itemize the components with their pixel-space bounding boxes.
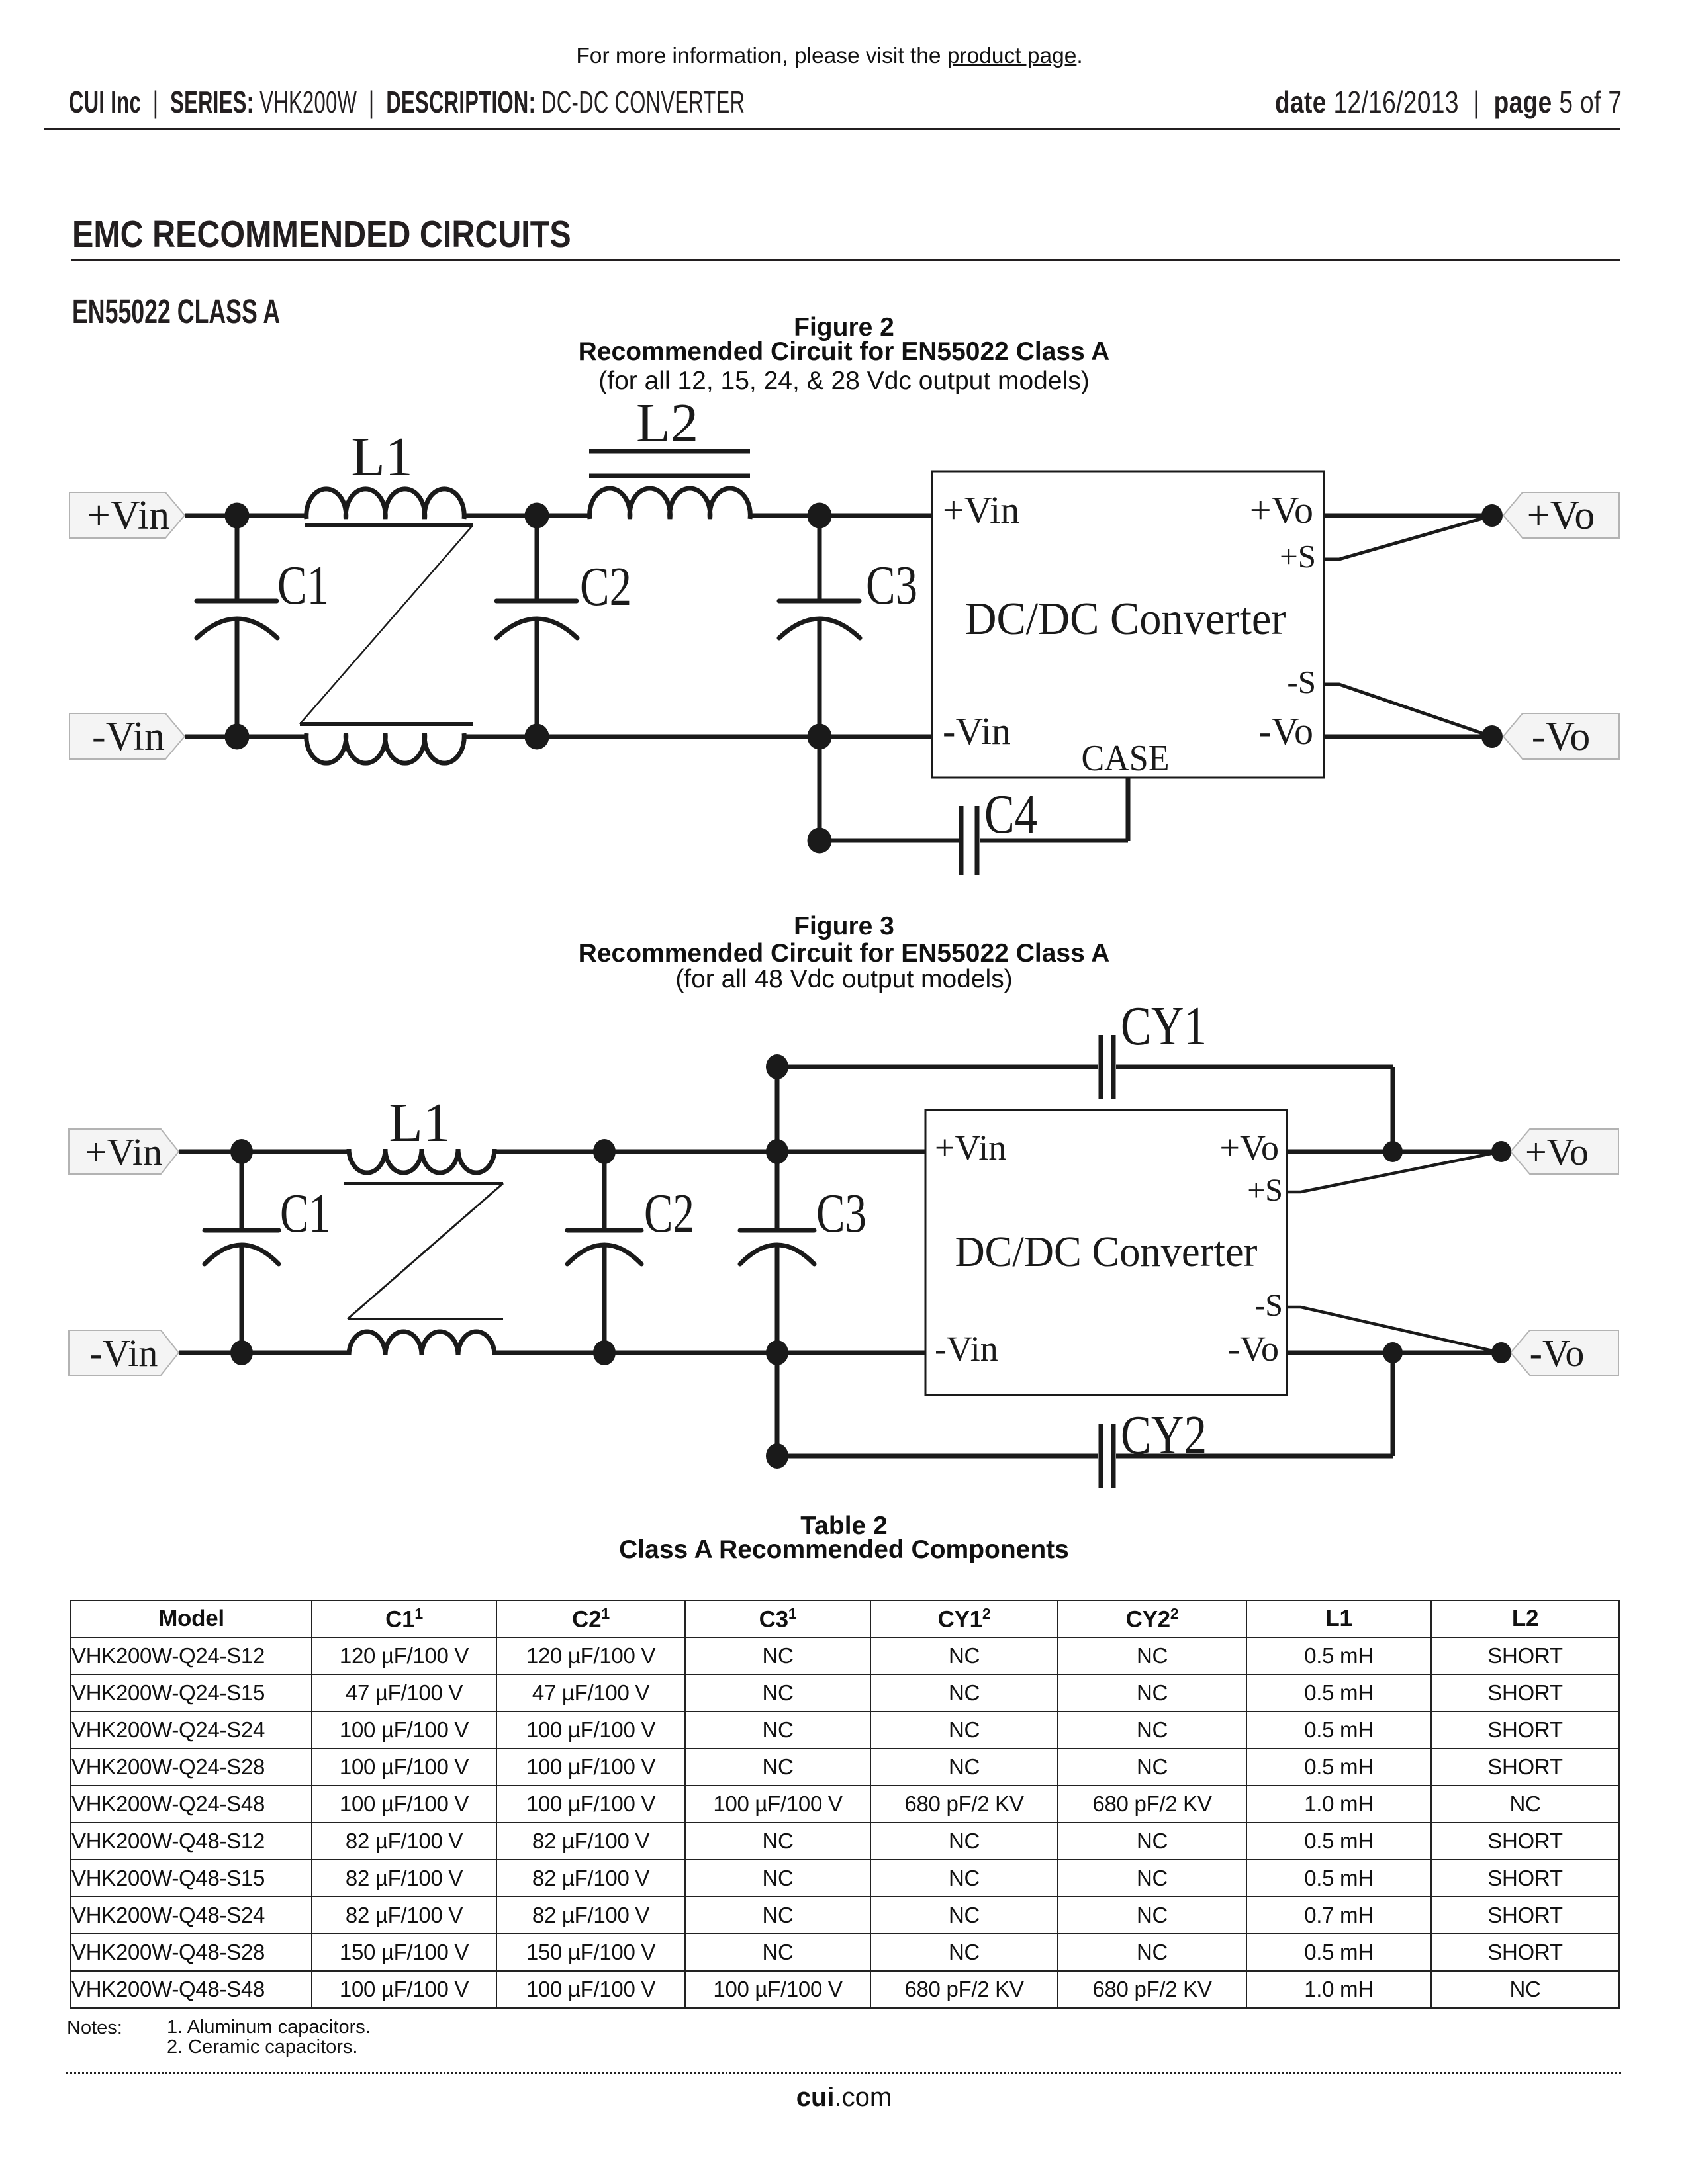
junction C3 bottom — [808, 724, 832, 750]
junction C1 top — [230, 1139, 253, 1164]
junction -Vo node — [1481, 725, 1503, 748]
wire +S sense — [1287, 1152, 1501, 1192]
subsection — [72, 292, 369, 331]
wire +Vin tag to L1 — [185, 514, 308, 518]
junction C3 top — [766, 1139, 788, 1164]
junction C1 bottom — [225, 724, 250, 750]
wire L2 to box +Vin — [748, 514, 932, 518]
svg-text:+Vin: +Vin — [943, 488, 1019, 531]
top info line — [0, 44, 1673, 69]
header rule — [44, 128, 1620, 130]
svg-text:C1: C1 — [280, 1183, 330, 1244]
junction CY2 branch — [766, 1443, 788, 1469]
notes — [67, 2017, 122, 2039]
svg-text:+S: +S — [1280, 538, 1316, 574]
wire L1 to box +Vin — [492, 1150, 925, 1154]
junction CY1 branch — [766, 1054, 788, 1079]
svg-text:C2: C2 — [644, 1183, 694, 1244]
wire L1 to L2 — [463, 514, 591, 518]
wire +S sense — [1324, 516, 1492, 559]
svg-text:C4: C4 — [984, 784, 1037, 845]
header bar — [69, 84, 1074, 120]
svg-text:-Vo: -Vo — [1532, 714, 1590, 759]
wire -Vo rail — [1324, 735, 1492, 739]
junction +Vo node — [1491, 1141, 1511, 1162]
wire L1 to box -Vin — [492, 1351, 925, 1355]
svg-text:C3: C3 — [866, 555, 917, 616]
wire +Vo rail — [1287, 1150, 1501, 1154]
capacitor C3 — [740, 1152, 814, 1353]
junction C1 bottom — [230, 1340, 253, 1365]
svg-text:CY2: CY2 — [1121, 1404, 1207, 1466]
capacitor C2 — [496, 516, 577, 737]
wire C3 node up to CY1 rail — [775, 1067, 780, 1152]
svg-text:+Vo: +Vo — [1250, 488, 1313, 531]
wire -Vin tag to L1 — [179, 1351, 351, 1355]
figure 3 captions — [0, 912, 1688, 941]
DC/DC converter U2 box — [925, 1110, 1287, 1395]
node -Vo output tag — [1503, 713, 1619, 759]
capacitor C1 — [197, 516, 277, 737]
junction C2 top — [593, 1139, 616, 1164]
svg-text:DC/DC Converter: DC/DC Converter — [965, 594, 1286, 645]
wire -Vin tag to L1 — [185, 735, 308, 739]
footer logo — [0, 2083, 1688, 2113]
node +Vo output tag — [1503, 492, 1619, 538]
svg-text:-Vo: -Vo — [1258, 709, 1313, 752]
figure 2 captions — [0, 313, 1688, 342]
svg-text:DC/DC Converter: DC/DC Converter — [955, 1228, 1258, 1276]
footer dotted rule — [66, 2072, 1622, 2074]
wire L1 to box -Vin — [463, 735, 932, 739]
wire +Vin tag to L1 — [179, 1150, 351, 1154]
svg-text:C1: C1 — [277, 555, 329, 616]
section heading — [72, 212, 659, 256]
capacitor C1 — [205, 1152, 279, 1353]
wire -S sense — [1324, 684, 1492, 737]
capacitor CY1 — [777, 1035, 1393, 1152]
node +Vin input tag — [69, 1129, 179, 1174]
table 2 — [70, 1600, 1620, 2009]
capacitor CY2 — [777, 1353, 1393, 1488]
svg-text:-Vo: -Vo — [1530, 1332, 1585, 1375]
node -Vo output tag — [1511, 1330, 1618, 1375]
junction C3 top — [808, 503, 832, 529]
svg-text:-S: -S — [1254, 1288, 1283, 1323]
capacitor C4 — [820, 778, 1128, 875]
node -Vin input tag — [70, 713, 185, 759]
svg-text:+Vin: +Vin — [87, 493, 169, 538]
junction C1 top — [225, 503, 250, 529]
inductor L1 common-mode choke — [344, 1149, 503, 1355]
svg-text:C2: C2 — [580, 556, 632, 617]
wire +Vo rail — [1324, 514, 1492, 518]
junction -Vo node — [1491, 1342, 1511, 1363]
svg-text:L1: L1 — [351, 426, 412, 488]
svg-text:+Vo: +Vo — [1525, 1130, 1589, 1173]
capacitor C3 — [779, 516, 860, 737]
junction C2 top — [525, 503, 549, 529]
node +Vo output tag — [1511, 1129, 1618, 1174]
wire -Vo rail — [1287, 1351, 1501, 1355]
svg-text:+Vin: +Vin — [935, 1128, 1006, 1167]
junction C4 rail — [808, 828, 832, 854]
svg-text:C3: C3 — [816, 1183, 867, 1244]
junction C2 bottom — [593, 1340, 616, 1365]
inductor L1 common-mode choke — [300, 489, 473, 763]
FIGURE 2 SCHEMATIC — [0, 390, 1688, 900]
svg-text:+Vo: +Vo — [1220, 1128, 1280, 1167]
svg-text:CY1: CY1 — [1121, 995, 1207, 1057]
node -Vin input tag — [69, 1330, 179, 1375]
junction CY1 to +Vo rail — [1383, 1141, 1403, 1162]
capacitor C2 — [567, 1152, 641, 1353]
wire -S sense — [1287, 1307, 1501, 1353]
wire C3 node down to C4 rail — [818, 737, 822, 841]
svg-text:-Vo: -Vo — [1228, 1329, 1279, 1369]
svg-text:CASE: CASE — [1082, 738, 1170, 779]
svg-text:-S: -S — [1287, 664, 1316, 700]
DC/DC converter U1 box — [932, 471, 1324, 778]
junction CY2 to -Vo rail — [1383, 1342, 1403, 1363]
junction C2 bottom — [525, 724, 549, 750]
wire C3 node down to CY2 rail — [775, 1353, 780, 1456]
svg-text:-Vin: -Vin — [943, 709, 1011, 752]
table captions — [0, 1512, 1688, 1541]
svg-text:L1: L1 — [389, 1092, 450, 1154]
svg-text:-Vin: -Vin — [92, 714, 165, 759]
svg-text:-Vin: -Vin — [90, 1332, 158, 1375]
inductor L2 — [589, 451, 750, 519]
node +Vin input tag — [70, 492, 185, 538]
svg-text:+S: +S — [1247, 1173, 1283, 1208]
junction +Vo node — [1481, 504, 1503, 527]
svg-text:-Vin: -Vin — [935, 1329, 998, 1369]
svg-text:+Vo: +Vo — [1527, 493, 1595, 538]
FIGURE 3 SCHEMATIC — [0, 993, 1688, 1516]
junction C3 bottom — [766, 1340, 788, 1365]
svg-text:L2: L2 — [636, 392, 698, 454]
svg-text:+Vin: +Vin — [85, 1130, 162, 1173]
